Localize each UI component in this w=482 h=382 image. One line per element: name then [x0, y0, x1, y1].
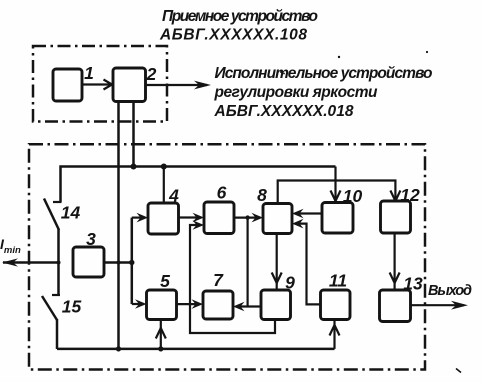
arrowhead into block4: [137, 213, 149, 223]
svg-text:9: 9: [285, 273, 295, 293]
arrowhead into block9 top: [272, 273, 282, 284]
svg-text:10: 10: [343, 186, 363, 206]
svg-text:регулировки яркости: регулировки яркости: [214, 84, 379, 101]
wire block2 output to actuator text: [146, 84, 208, 86]
wire bottom bus up into block5: [160, 320, 162, 349]
arrowhead into block7 right: [233, 302, 245, 312]
wire block5 to block7: [177, 303, 198, 305]
node block3 split: [129, 260, 134, 265]
wire block12 down to block13: [394, 233, 396, 290]
block 12: [381, 201, 411, 233]
node crossing blob: [117, 261, 121, 265]
wire block9 bottom loop to block6 lower input: [190, 225, 275, 333]
switch S15 contact tick: [52, 294, 60, 296]
arrowhead into block11 bottom: [330, 325, 340, 336]
svg-text:Исполнительное устройство: Исполнительное устройство: [215, 65, 433, 82]
block 5: [147, 290, 177, 320]
svg-text:11: 11: [329, 271, 347, 291]
wire into block4 left: [132, 217, 142, 219]
wire split riser to block4/block5: [131, 218, 134, 304]
bottom bus wire: [57, 348, 335, 351]
switch S15 blade: [42, 296, 57, 320]
node: block2 line joins top bus: [131, 164, 137, 170]
arrowhead into block5: [135, 299, 147, 309]
wire S14 to Imin node: [57, 229, 60, 263]
arrowhead output: [451, 301, 468, 310]
arrowhead into block2: [104, 80, 113, 90]
svg-text:13: 13: [403, 274, 423, 294]
svg-text:АБВГ.ХХХХХХ.018: АБВГ.ХХХХХХ.018: [214, 103, 354, 120]
wire block9 to block7: [239, 305, 261, 307]
wire block6 to block8: [234, 217, 257, 219]
block 7: [203, 291, 233, 319]
svg-text:АБВГ.ХХХХХХ.108: АБВГ.ХХХХХХ.108: [159, 27, 307, 44]
arrowhead into block8 right upper: [292, 209, 304, 219]
svg-text:15: 15: [62, 297, 82, 317]
svg-text:7: 7: [213, 270, 224, 290]
wire block13 output: [411, 304, 464, 306]
svg-text:3: 3: [86, 229, 96, 249]
wire block8 down to block9: [276, 234, 278, 290]
arrowhead into block8 right lower: [292, 219, 304, 229]
node: riser to block5: [158, 346, 163, 351]
svg-text:12: 12: [400, 185, 420, 205]
top bus wire: [61, 167, 336, 203]
wire block1 to block2: [81, 83, 110, 85]
wire bottom bus up into block11: [333, 320, 335, 349]
arrowhead Imin pointing left: [2, 258, 18, 266]
svg-text:2: 2: [146, 64, 157, 84]
arrowhead into block7 left: [192, 299, 204, 309]
svg-text:14: 14: [61, 203, 81, 223]
block 3: [73, 247, 104, 277]
block 1: [53, 69, 82, 101]
switch S14 contact tick: [53, 201, 62, 203]
svg-text:6: 6: [217, 183, 227, 203]
block 10: [322, 203, 353, 234]
arrowhead into block13 top: [390, 273, 400, 284]
node: block2 long line joins bottom bus: [116, 346, 121, 351]
wire bus down to block4 top: [163, 167, 165, 204]
arrowhead into block6 lower: [193, 220, 205, 230]
wire block2 bottom vertical left (long, to bottom bus): [117, 101, 120, 349]
svg-text:5: 5: [160, 271, 170, 291]
block 2: [113, 68, 146, 102]
wire block11 to block8 right lower: [298, 224, 321, 305]
svg-text:1: 1: [84, 63, 94, 83]
wire block8 top loop to block12 top: [278, 181, 396, 204]
wire into block5 left: [132, 303, 141, 305]
block 9: [261, 290, 291, 320]
scan specks: [280, 71, 282, 73]
node block6 output branch: [245, 215, 249, 219]
wire branch down to block7/9 net: [247, 218, 249, 307]
svg-text:8: 8: [257, 185, 267, 205]
arrowhead into block10 top: [331, 191, 341, 202]
block 4: [148, 203, 179, 234]
block 13: [380, 290, 411, 322]
node Imin junction: [57, 261, 61, 265]
wire bus down into block10 top: [334, 167, 336, 203]
block 8: [263, 204, 292, 234]
dash-dot enclosure: actuator unit: [29, 144, 425, 369]
arrowhead into block5 bottom: [156, 328, 166, 339]
switch S14 blade: [44, 199, 59, 231]
wire Imin output: [3, 261, 59, 264]
wire block2 bottom vertical right (to top bus): [132, 101, 135, 167]
block 6: [204, 202, 234, 234]
wire block3 output: [104, 261, 132, 264]
wire S15 to bottom bus: [56, 319, 59, 349]
svg-text:Приемное устройство: Приемное устройство: [162, 8, 318, 25]
svg-text:Выход: Выход: [428, 283, 472, 299]
arrowhead into block8 left: [252, 213, 264, 223]
wire block10 to block8 right upper: [298, 212, 322, 214]
arrowhead into block6 upper: [193, 213, 205, 223]
node: drop to block4: [161, 164, 167, 170]
dash-dot enclosure: receiver unit: [33, 46, 167, 122]
block 11: [321, 290, 351, 320]
arrowhead into block12 top: [390, 191, 400, 202]
arrowhead output block2: [194, 81, 211, 90]
wire Imin node to S15: [57, 263, 60, 295]
svg-text:4: 4: [168, 186, 179, 206]
wire block4 to block6: [179, 216, 199, 218]
